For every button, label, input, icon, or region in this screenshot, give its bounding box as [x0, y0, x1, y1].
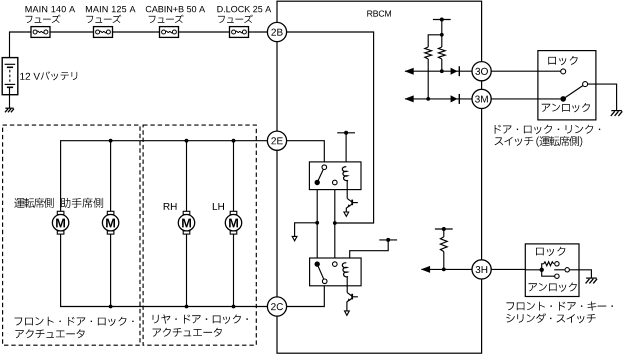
label fuse rating [26, 6, 76, 12]
label fuse rating [217, 6, 271, 12]
wire R to 3O line [441, 59, 443, 71]
label unlock (key switch) [529, 283, 577, 292]
module RBCM box [277, 1, 482, 353]
label lock (key switch) [536, 247, 565, 256]
junction bus/M3 top [185, 139, 189, 143]
connector 2B [267, 22, 286, 41]
relay K1 contact to 2B [333, 180, 338, 185]
motor M2 passenger door lock [102, 211, 118, 234]
relay K2 coil L2 [342, 263, 348, 277]
key switch resistor branch [542, 264, 544, 270]
connector 2C [267, 297, 286, 316]
junction bus/M3 bottom [185, 305, 189, 309]
key switch unlock branch [542, 270, 555, 276]
fuse CABIN+B 50 A F3 [160, 27, 179, 38]
junction pull-up split [440, 33, 444, 37]
key switch common pole [540, 268, 544, 272]
label lock (link switch) [548, 56, 577, 65]
relay K2 contact to 2B [333, 262, 338, 267]
label RBCM [367, 11, 391, 17]
wire actuator top bus (from 2E) [61, 141, 268, 212]
relay K2 contact to 2C [322, 279, 327, 284]
relay K1 common pole [315, 180, 320, 185]
motor M3 rear RH door lock [178, 211, 194, 234]
arrow (3O to door lock control) [405, 68, 414, 75]
key switch arm [554, 269, 564, 271]
wire 3M line [405, 98, 561, 100]
fuse MAIN 140 A F1 [31, 27, 50, 38]
transistor Q1 [347, 198, 352, 201]
junction bus/M4 top [232, 139, 236, 143]
label 12 V バッテリ [20, 73, 40, 80]
label door lock link switch line1 [495, 125, 601, 134]
wire battery-to-fuse bus [10, 32, 32, 58]
power tap B+ (relay K2 coil) [379, 239, 397, 241]
junction bus/M2 bottom [109, 305, 113, 309]
label fuse JP [86, 15, 121, 23]
label fuse JP [149, 15, 184, 23]
wire 2E internal (to relay K1 contact) [287, 141, 325, 165]
connector 3H [472, 260, 491, 279]
wire 2C internal (to relay K2 contact) [287, 284, 325, 307]
wire ground branch [295, 223, 318, 237]
wire 3H into switch [525, 269, 541, 271]
resistor R (key switch lock) [544, 262, 554, 266]
signal direction marker (3O input) [451, 68, 458, 75]
relay K1 coil L1 [342, 167, 348, 181]
fuse MAIN 125 A F2 [94, 27, 113, 38]
link switch common pole [560, 96, 566, 102]
ground (Q2 signal ground) [345, 311, 350, 315]
signal direction marker (3M input) [451, 95, 458, 102]
link switch lock contact [561, 69, 566, 74]
relay K2 box [310, 258, 362, 286]
label driver side [14, 198, 53, 208]
label fuse rating [146, 6, 205, 12]
link switch arm contact [583, 82, 588, 87]
motor M1 driver door lock [52, 211, 68, 234]
label passenger side [61, 198, 103, 208]
wire link switch to ground [588, 84, 617, 110]
wire Q2 emitter to ground [346, 302, 348, 311]
wire relay contact2 (K1 to K2) [334, 185, 336, 262]
wire relay commons (K1 to K2) [316, 185, 318, 262]
resistor R (3O pull-up) [438, 47, 445, 59]
label rear door lock actuator line2 [153, 328, 222, 337]
wire key switch to ground [569, 270, 591, 278]
relay K1 contact to 2E [322, 165, 327, 170]
arrow (3M to door lock control) [405, 95, 414, 102]
label fuse JP [218, 15, 253, 23]
resistor R (3M pull-up) [425, 47, 432, 59]
label fuse rating [86, 6, 136, 12]
relay K1 arm [317, 167, 324, 182]
junction 2B/relay-contact [333, 221, 337, 225]
label door lock link switch line2 [495, 136, 583, 147]
motor M4 rear LH door lock [225, 211, 241, 234]
key switch arm contact [565, 268, 569, 272]
relay K1 box [309, 162, 361, 190]
relay K2 common pole [315, 261, 320, 266]
wire motor M2 branch [110, 141, 112, 212]
wire actuator bottom bus (to 2C) [61, 234, 268, 306]
wire 2B internal (to relay contacts) [287, 32, 374, 223]
wire to left resistor [428, 35, 442, 47]
label unlock (link switch) [542, 103, 590, 112]
junction bus/M2 top [109, 139, 113, 143]
label fuse JP [26, 15, 61, 23]
power tap B+ (relay K1 coil) [337, 132, 355, 134]
wire motor M4 branch [233, 141, 235, 212]
ground (Q1 signal ground) [344, 212, 349, 216]
relay K2 arm [317, 264, 325, 281]
wire Q1 emitter to ground [345, 208, 347, 212]
label LH [213, 203, 224, 210]
wire fuse bus [50, 31, 94, 33]
wire 3H line [421, 268, 541, 270]
wire battery to ground [9, 95, 11, 108]
transistor Q2 [347, 293, 352, 296]
label front door lock actuator line2 [15, 329, 84, 338]
wire 3O line [405, 70, 561, 72]
door lock link switch box [538, 51, 596, 120]
wire 3O into switch [538, 70, 561, 72]
ground (signal ground triangle, commons) [292, 236, 297, 240]
arrow (3H input) [421, 266, 430, 273]
label front door key cylinder switch line2 [506, 313, 595, 323]
front door lock actuator dashed box [3, 125, 140, 345]
connector 3O [472, 62, 491, 81]
wire K1 coil to transistor [346, 180, 348, 198]
junction R/3O [440, 69, 444, 73]
resistor R (3H pull-up) [440, 237, 447, 252]
front door key cylinder switch box [525, 244, 579, 297]
label RH [164, 203, 177, 210]
wire K2 coil to transistor [346, 277, 348, 293]
power tap B+ (3O/3M pull-up) [441, 20, 443, 48]
label rear door lock actuator line1 [153, 314, 248, 324]
label front door key cylinder switch line1 [506, 301, 613, 310]
wire 3M into switch [538, 98, 563, 100]
link switch arm [563, 86, 583, 99]
wire relay K2 coil power [347, 240, 389, 263]
battery BAT 12V [2, 58, 18, 95]
ground (battery chassis ground) [5, 107, 13, 109]
wire relay K1 coil power [345, 133, 347, 167]
power tap B+ (3H pull-up) [443, 229, 445, 237]
wire R to 3M line (crosses 3O line) [427, 59, 429, 99]
junction commons/ground branch [315, 221, 319, 225]
connector 3M [472, 89, 491, 108]
ground (link switch chassis ground) [611, 110, 622, 112]
junction R/3H [442, 268, 446, 272]
label front door lock actuator line1 [15, 317, 134, 326]
key switch lock contact [555, 262, 559, 266]
junction bus/M4 bottom [232, 305, 236, 309]
wire R to 3H line [443, 252, 445, 270]
junction R/3M [426, 97, 430, 101]
connector 2E [267, 131, 286, 150]
wire motor M3 branch [186, 141, 188, 212]
key switch unlock contact [555, 274, 559, 278]
rear door lock actuator dashed box [143, 125, 256, 345]
fuse D.LOCK 25 A F4 [230, 27, 249, 38]
ground (key switch chassis ground) [586, 277, 597, 279]
